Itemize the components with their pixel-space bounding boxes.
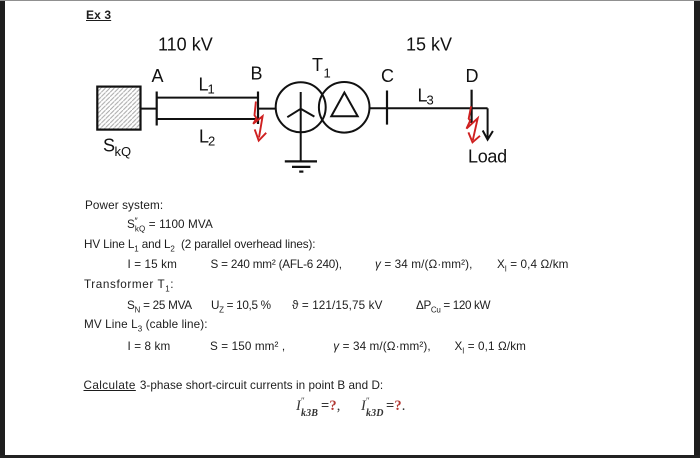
delta symbol (secondary) [331, 93, 357, 117]
line L2 (overhead line) [158, 118, 259, 120]
busbar D [471, 90, 473, 123]
source SkQ (network equivalent, hatched box) [97, 87, 140, 130]
svg-text:3: 3 [427, 92, 434, 107]
svg-text:1: 1 [208, 82, 215, 97]
svg-text:1: 1 [324, 66, 331, 81]
load feeder with arrow [483, 108, 493, 139]
neutral earthing conductor [300, 109, 302, 162]
svg-text:110 kV: 110 kV [158, 35, 213, 55]
wire busbar B to transformer [258, 108, 277, 110]
exercise title Ex 3 [86, 9, 111, 21]
label SkQ [103, 136, 131, 160]
svg-text:2: 2 [208, 134, 215, 149]
label T1 [312, 55, 331, 80]
svg-text:D: D [466, 66, 479, 86]
label L1 [199, 75, 215, 97]
svg-text:C: C [381, 66, 394, 86]
result formula line [0, 399, 1, 401]
busbar A [156, 92, 158, 126]
ground [285, 161, 317, 171]
svg-text:A: A [152, 66, 164, 86]
wire source to busbar A [141, 108, 158, 110]
transformer T1 primary winding [276, 82, 326, 132]
svg-text:S: S [103, 136, 115, 156]
svg-text:Load: Load [468, 147, 507, 167]
svg-text:15 kV: 15 kV [406, 35, 452, 55]
wire transformer to load corner [370, 107, 488, 109]
short-circuit bolt at B [253, 102, 266, 141]
short-circuit bolt at D [467, 106, 481, 142]
label L3 [418, 85, 434, 107]
label L2 [199, 127, 215, 149]
transformer T1 secondary winding [319, 82, 370, 133]
line L1 (overhead line) [158, 97, 259, 99]
svg-text:kQ: kQ [115, 144, 132, 159]
busbar B [257, 92, 259, 125]
svg-text:T: T [312, 55, 323, 75]
window frame bars (decorative) [0, 0, 5, 458]
svg-text:B: B [251, 64, 263, 84]
busbar C [386, 91, 388, 125]
wye symbol (primary) [287, 92, 314, 117]
parameter text block [85, 200, 163, 212]
